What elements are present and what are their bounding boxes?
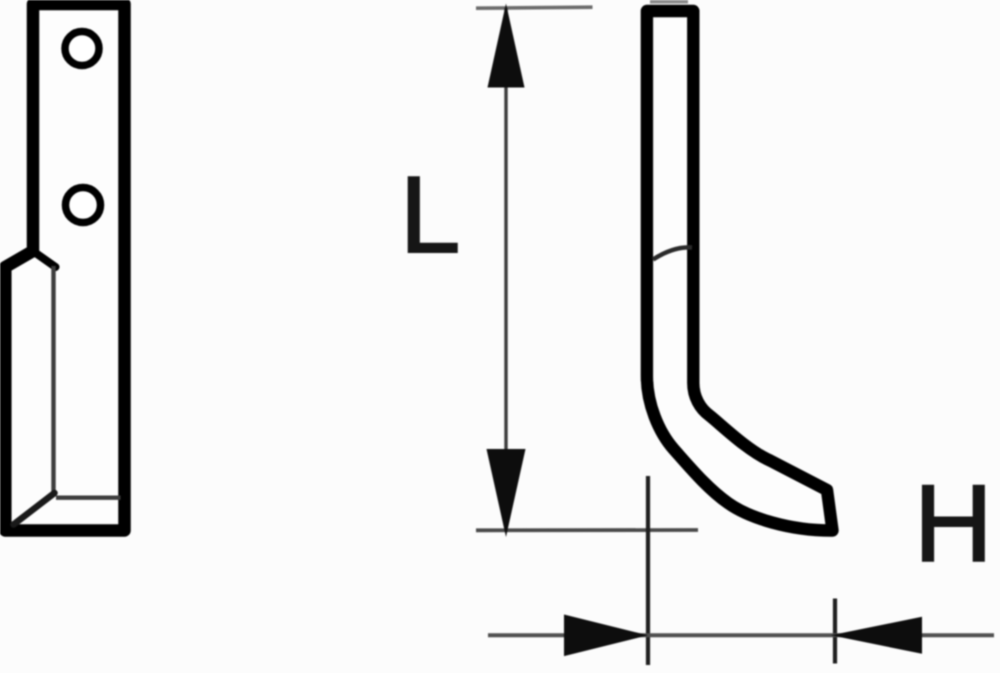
side view top extension sliver <box>650 0 688 4</box>
H dimension line <box>488 633 994 637</box>
front view blade outer contour <box>5 4 124 531</box>
H vertical extension line left <box>646 476 650 665</box>
front view bevel horizontal line <box>56 496 121 500</box>
svg-text:L: L <box>400 154 461 276</box>
H arrow pointing left <box>831 617 922 654</box>
H arrow pointing right <box>564 615 648 657</box>
side view blade outline <box>647 11 833 531</box>
L top arrow <box>488 4 525 88</box>
hole top <box>65 32 99 66</box>
front view bevel vertical line <box>51 266 55 493</box>
L dimension line <box>504 8 507 531</box>
H vertical extension line right <box>833 599 837 664</box>
L bottom arrow <box>487 449 526 537</box>
bottom baseline extension line <box>476 528 698 532</box>
front view notch inner edge <box>34 252 56 268</box>
front view bevel diagonal line <box>14 493 55 525</box>
side view bend line <box>653 247 692 259</box>
hole bottom <box>66 188 101 223</box>
L top extension line <box>476 7 593 8</box>
svg-text:H: H <box>914 462 993 584</box>
